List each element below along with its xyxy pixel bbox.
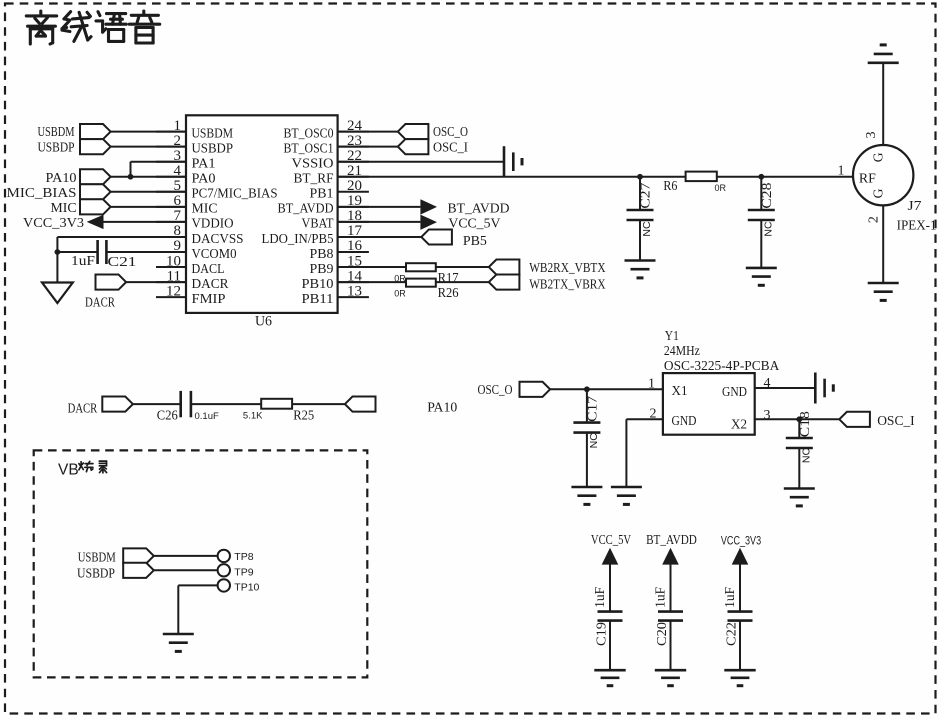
dashed group box VB烧录 bbox=[34, 450, 368, 677]
ground above J7 bbox=[868, 61, 899, 64]
group label VB烧录 bbox=[58, 461, 107, 479]
capacitor C22 1uF bbox=[722, 586, 753, 646]
ground under C27 bbox=[625, 259, 656, 262]
capacitor C20 1uF bbox=[652, 586, 683, 646]
wire C19 to ground bbox=[609, 621, 611, 671]
svg-text:R6: R6 bbox=[663, 179, 677, 194]
power flag VCC_5V (pin18) bbox=[420, 215, 500, 232]
svg-text:C18: C18 bbox=[797, 411, 812, 437]
U6 pin 4 PA0 bbox=[156, 163, 216, 187]
svg-text:NC: NC bbox=[588, 433, 600, 449]
wire PA1 branch bbox=[131, 161, 187, 163]
svg-text:BT_RF: BT_RF bbox=[294, 172, 334, 187]
U6 pin 9 VCOM0 bbox=[156, 238, 237, 262]
svg-text:USBDP: USBDP bbox=[77, 566, 115, 581]
junction BT_RF / C28 bbox=[758, 174, 764, 180]
svg-text:20: 20 bbox=[347, 178, 362, 194]
svg-text:3: 3 bbox=[864, 132, 879, 139]
svg-text:PB10: PB10 bbox=[302, 277, 334, 292]
U6 pin 6 MIC bbox=[156, 193, 218, 217]
svg-text:DACR: DACR bbox=[85, 296, 116, 311]
U6 pin 1 USBDM bbox=[156, 118, 233, 142]
wire VSSIO pin22 bbox=[338, 161, 504, 163]
svg-text:PB11: PB11 bbox=[302, 292, 334, 307]
svg-text:G: G bbox=[871, 188, 886, 198]
ground under C18 bbox=[784, 487, 815, 490]
svg-text:MIC_BIAS: MIC_BIAS bbox=[7, 186, 77, 201]
svg-text:BT_AVDD: BT_AVDD bbox=[448, 201, 510, 216]
svg-text:10: 10 bbox=[166, 253, 181, 269]
capacitor C18 NC bbox=[786, 411, 813, 489]
wire C22 to ground bbox=[739, 621, 741, 671]
svg-text:FMIP: FMIP bbox=[192, 292, 226, 307]
U6 pin 10 DACL bbox=[156, 253, 225, 277]
svg-text:C21: C21 bbox=[108, 255, 137, 270]
svg-text:C19: C19 bbox=[593, 622, 608, 646]
resistor R25 5.1K bbox=[243, 399, 314, 424]
svg-text:USBDP: USBDP bbox=[192, 141, 234, 156]
svg-text:PA0: PA0 bbox=[192, 172, 216, 187]
port USBDP (VB box) bbox=[77, 563, 154, 582]
wire MIC to pin6 bbox=[111, 206, 186, 208]
svg-text:U6: U6 bbox=[255, 314, 272, 330]
wire VCC_3V3 rail bbox=[739, 560, 741, 612]
wire J7 pin2 to bottom ground bbox=[882, 205, 884, 283]
svg-text:R17: R17 bbox=[438, 271, 459, 286]
U6 pin 13 PB11 bbox=[302, 283, 369, 307]
test point TP9 bbox=[218, 564, 254, 578]
junction BT_RF / C27 bbox=[637, 174, 643, 180]
svg-text:DACVSS: DACVSS bbox=[192, 232, 244, 247]
port DACR (mid) bbox=[68, 397, 133, 417]
svg-text:C20: C20 bbox=[654, 622, 669, 646]
U6 pin 2 USBDP bbox=[156, 133, 233, 157]
wire PA10 to pin4 bbox=[111, 176, 186, 178]
junction PA10/PA1 bbox=[128, 174, 134, 180]
svg-text:R25: R25 bbox=[293, 408, 314, 423]
svg-text:VCC_3V3: VCC_3V3 bbox=[721, 535, 761, 547]
wire pin17 to PB5 bbox=[338, 236, 422, 238]
junction C21 branch bbox=[55, 249, 61, 255]
U6 pin 3 PA1 bbox=[156, 148, 216, 172]
svg-text:VCOM0: VCOM0 bbox=[192, 247, 237, 262]
wire USBDM to pin1 bbox=[111, 131, 186, 133]
svg-text:USBDM: USBDM bbox=[192, 126, 234, 141]
ground VSSIO (rotated) bbox=[503, 146, 506, 177]
U6 pin 7 VDDIO bbox=[156, 208, 234, 232]
ground under C22 bbox=[724, 669, 755, 672]
wire TP10 to ground bbox=[178, 584, 217, 586]
U6 pin 15 PB9 bbox=[310, 253, 369, 277]
svg-text:X1: X1 bbox=[672, 383, 688, 398]
wire R25 to port bbox=[292, 403, 345, 405]
ground under C19 bbox=[594, 669, 625, 672]
power flag BT_AVDD (rail) bbox=[646, 532, 697, 564]
ground (signal) under pin8 bbox=[42, 283, 73, 304]
power flag BT_AVDD (pin19) bbox=[420, 199, 509, 216]
svg-text:PA10: PA10 bbox=[46, 171, 77, 186]
port USBDM (VB box) bbox=[78, 548, 154, 565]
power flag VCC_5V (rail) bbox=[591, 532, 631, 564]
svg-text:OSC_I: OSC_I bbox=[433, 140, 468, 155]
svg-text:GND: GND bbox=[722, 384, 747, 399]
svg-text:WB2RX_VBTX: WB2RX_VBTX bbox=[529, 261, 605, 276]
svg-text:VCC_5V: VCC_5V bbox=[591, 532, 631, 547]
svg-text:0R: 0R bbox=[394, 289, 406, 299]
wire DACVSS pin8 to ground bbox=[57, 236, 186, 238]
port WB2RX_VBTX bbox=[489, 260, 606, 277]
svg-text:C28: C28 bbox=[759, 182, 774, 208]
wire OSC_O to Y1 pin1 bbox=[550, 388, 663, 390]
port WB2TX_VBRX bbox=[489, 275, 606, 293]
port OSC_O (mid) bbox=[478, 382, 551, 398]
U6 pin 11 DACR bbox=[156, 268, 229, 292]
port MIC_BIAS bbox=[7, 184, 111, 201]
wire C20 to ground bbox=[670, 621, 672, 671]
wire BT_AVDD rail bbox=[670, 560, 672, 612]
svg-text:1uF: 1uF bbox=[71, 254, 95, 269]
U6 pin 8 DACVSS bbox=[156, 223, 244, 247]
svg-text:PB9: PB9 bbox=[310, 262, 334, 277]
svg-text:BT_OSC1: BT_OSC1 bbox=[284, 141, 334, 156]
svg-text:DACR: DACR bbox=[192, 277, 230, 292]
wire Y1 pin2 GND bbox=[626, 418, 663, 420]
wire pin18 to VCC_5V bbox=[338, 221, 421, 223]
svg-text:C26: C26 bbox=[157, 408, 178, 423]
svg-text:NC: NC bbox=[641, 221, 653, 237]
capacitor C17 NC bbox=[573, 389, 600, 487]
svg-text:0.1uF: 0.1uF bbox=[195, 411, 219, 422]
wire pin23 to OSC_I bbox=[338, 146, 398, 148]
svg-text:OSC_I: OSC_I bbox=[877, 414, 915, 429]
svg-text:C17: C17 bbox=[584, 396, 599, 422]
port PA10 (mid) bbox=[345, 397, 457, 416]
ground under C20 bbox=[655, 669, 686, 672]
U6 pin 14 PB10 bbox=[302, 268, 369, 292]
svg-text:BT_AVDD: BT_AVDD bbox=[278, 202, 334, 217]
svg-text:VB: VB bbox=[58, 462, 79, 479]
svg-text:LDO_IN/PB5: LDO_IN/PB5 bbox=[262, 232, 334, 247]
svg-text:BT_OSC0: BT_OSC0 bbox=[284, 126, 334, 141]
power flag VCC_3V3 (pin7) bbox=[23, 215, 104, 231]
svg-text:1: 1 bbox=[838, 163, 845, 178]
wire DACR to C26 bbox=[133, 403, 181, 405]
wire VCC_3V3 to pin7 bbox=[104, 221, 187, 223]
svg-text:5.1K: 5.1K bbox=[243, 411, 263, 422]
svg-text:PA10: PA10 bbox=[427, 401, 457, 416]
svg-text:USBDM: USBDM bbox=[38, 125, 75, 140]
svg-text:GND: GND bbox=[672, 413, 697, 428]
port DACR (left) bbox=[85, 275, 126, 311]
svg-text:PB5: PB5 bbox=[463, 234, 487, 249]
svg-text:PB1: PB1 bbox=[310, 187, 334, 202]
resistor R26 0R bbox=[394, 279, 458, 302]
svg-text:USBDP: USBDP bbox=[38, 140, 75, 155]
svg-text:3: 3 bbox=[764, 408, 771, 423]
test point TP10 bbox=[218, 579, 260, 593]
wire pin24 to OSC_O bbox=[338, 131, 398, 133]
svg-text:C27: C27 bbox=[638, 182, 653, 208]
U6 pin 22 VSSIO bbox=[292, 148, 369, 172]
ground in VB box bbox=[163, 633, 194, 636]
svg-text:VSSIO: VSSIO bbox=[292, 157, 334, 172]
svg-text:NC: NC bbox=[762, 221, 774, 237]
wire pin14 net bbox=[338, 281, 489, 283]
wire BT_RF net bbox=[338, 176, 853, 178]
port OSC_I (mid) bbox=[839, 412, 915, 429]
ground under Y1 pin2 bbox=[611, 486, 642, 489]
svg-text:VCC_5V: VCC_5V bbox=[448, 217, 500, 232]
svg-text:IPEX-1: IPEX-1 bbox=[897, 219, 937, 234]
U6 pin 20 PB1 bbox=[310, 178, 369, 202]
junction C17 branch bbox=[584, 386, 590, 392]
svg-text:13: 13 bbox=[347, 283, 362, 299]
wire USBDP to pin2 bbox=[111, 146, 186, 148]
port USBDP (left) bbox=[38, 139, 111, 155]
capacitor C19 1uF bbox=[592, 586, 623, 646]
svg-text:VDDIO: VDDIO bbox=[192, 217, 234, 232]
U6 pin 24 BT_OSC0 bbox=[284, 118, 369, 142]
wire J7 pin3 to top ground bbox=[882, 63, 884, 145]
capacitor C21 1uF bbox=[71, 240, 137, 270]
U6 pin 21 BT_RF bbox=[294, 163, 369, 187]
U6 pin 18 VBAT bbox=[302, 208, 369, 232]
svg-text:DACR: DACR bbox=[68, 402, 98, 417]
svg-text:PB8: PB8 bbox=[310, 247, 334, 262]
svg-text:OSC_O: OSC_O bbox=[478, 383, 513, 398]
ground below J7 bbox=[868, 282, 899, 285]
svg-text:RF: RF bbox=[859, 171, 876, 186]
svg-text:PA1: PA1 bbox=[192, 157, 216, 172]
wire pin15 net bbox=[338, 266, 489, 268]
svg-text:WB2TX_VBRX: WB2TX_VBRX bbox=[529, 277, 605, 292]
svg-text:BT_AVDD: BT_AVDD bbox=[646, 532, 697, 547]
svg-text:16: 16 bbox=[347, 238, 363, 254]
crystal oscillator Y1 24MHz OSC-3225-4P-PCBA bbox=[648, 328, 780, 435]
antenna connector J7 IPEX-1 (RF) bbox=[838, 132, 937, 234]
U6 pin 17 LDO_IN/PB5 bbox=[262, 223, 369, 247]
svg-text:1uF: 1uF bbox=[722, 586, 737, 607]
resistor R6 0R bbox=[663, 172, 726, 194]
port USBDM (left) bbox=[38, 124, 111, 140]
svg-text:C22: C22 bbox=[723, 622, 738, 646]
svg-text:USBDM: USBDM bbox=[78, 551, 116, 566]
port OSC_O (top) bbox=[398, 124, 468, 140]
svg-text:0R: 0R bbox=[715, 183, 727, 193]
svg-text:24MHz: 24MHz bbox=[664, 343, 700, 358]
U6 pin 23 BT_OSC1 bbox=[284, 133, 369, 157]
port PB5 (pin17) bbox=[421, 229, 487, 248]
title 离线语音 bbox=[26, 11, 159, 44]
svg-text:Y1: Y1 bbox=[665, 328, 679, 343]
wire C26 to R25 bbox=[191, 403, 261, 405]
wire Y1 pin4 GND bbox=[755, 387, 815, 389]
svg-text:TP10: TP10 bbox=[234, 581, 259, 593]
ground under C28 bbox=[746, 267, 777, 270]
wire VCC_5V rail bbox=[609, 560, 611, 612]
port PA10 (left) bbox=[46, 169, 111, 186]
svg-text:12: 12 bbox=[166, 283, 181, 299]
wire USBDP to TP9 bbox=[154, 569, 218, 571]
U6 pin 12 FMIP bbox=[156, 283, 226, 307]
U6 pin 19 BT_AVDD bbox=[278, 193, 369, 217]
wire C21 left bbox=[57, 251, 97, 253]
svg-text:G: G bbox=[871, 152, 886, 162]
capacitor C27 NC bbox=[627, 177, 654, 261]
svg-text:OSC_O: OSC_O bbox=[433, 125, 468, 140]
wire USBDM to TP8 bbox=[154, 555, 218, 557]
capacitor C28 NC bbox=[748, 177, 775, 268]
svg-text:VBAT: VBAT bbox=[302, 217, 334, 232]
svg-text:MIC: MIC bbox=[51, 201, 77, 216]
power flag VCC_3V3 (rail) bbox=[721, 535, 761, 564]
svg-text:MIC: MIC bbox=[192, 202, 218, 217]
U6 pin 16 PB8 bbox=[310, 238, 369, 262]
port OSC_I (top) bbox=[398, 139, 468, 155]
ground under C17 bbox=[571, 486, 602, 489]
U6 pin 5 PC7/MIC_BIAS bbox=[156, 178, 278, 202]
svg-text:DACL: DACL bbox=[192, 262, 225, 277]
svg-text:2: 2 bbox=[867, 216, 882, 223]
wire C21 right to pin9 bbox=[106, 251, 186, 253]
resistor R17 0R bbox=[394, 263, 458, 286]
port MIC bbox=[51, 199, 111, 216]
svg-text:TP8: TP8 bbox=[234, 551, 253, 563]
svg-text:1uF: 1uF bbox=[652, 586, 667, 607]
svg-text:R26: R26 bbox=[438, 286, 459, 301]
junction C18 branch bbox=[796, 416, 802, 422]
wire MIC_BIAS to pin5 bbox=[111, 191, 186, 193]
svg-text:X2: X2 bbox=[731, 417, 747, 432]
svg-text:OSC-3225-4P-PCBA: OSC-3225-4P-PCBA bbox=[664, 358, 780, 373]
svg-text:PC7/MIC_BIAS: PC7/MIC_BIAS bbox=[192, 187, 278, 202]
svg-text:1uF: 1uF bbox=[592, 586, 607, 607]
wire Y1 pin3 X2 bbox=[755, 418, 840, 420]
svg-text:TP9: TP9 bbox=[234, 566, 253, 578]
wire pin19 to BT_AVDD bbox=[338, 206, 421, 208]
svg-text:NC: NC bbox=[800, 448, 812, 464]
wire DACR to pin11 bbox=[126, 281, 186, 283]
svg-text:J7: J7 bbox=[908, 199, 922, 214]
capacitor C26 0.1uF bbox=[157, 391, 219, 424]
IC U6 bbox=[186, 115, 338, 329]
ground right of Y1 pin4 (rotated) bbox=[814, 373, 817, 404]
svg-text:VCC_3V3: VCC_3V3 bbox=[23, 216, 84, 231]
test point TP8 bbox=[218, 550, 254, 563]
